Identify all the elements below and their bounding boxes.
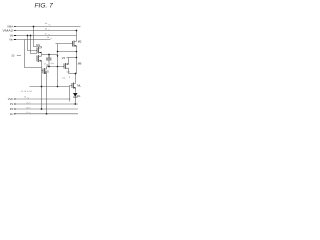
svg-text:1a 1b 1c 1d: 1a 1b 1c 1d: [21, 91, 33, 93]
node dot rail3 a: [27, 35, 29, 37]
transistor M2: [72, 41, 74, 47]
svg-text:M2: M2: [78, 39, 82, 43]
rail start ticks: [14, 27, 16, 114]
svg-text:V6: V6: [62, 56, 66, 60]
wire Vin down-around: [25, 40, 42, 68]
svg-text:4c: 4c: [45, 33, 47, 35]
wire rail AL: [15, 113, 79, 115]
svg-text:ML: ML: [77, 83, 81, 87]
svg-text:4a: 4a: [45, 23, 48, 25]
svg-text:M6: M6: [78, 62, 82, 66]
tick near 10c: [69, 77, 71, 79]
wire gate line to M2: [56, 43, 73, 45]
wire rail Vtch: [15, 98, 71, 100]
arrow M6 drain: [66, 63, 68, 65]
node dot V6 mid rail: [57, 86, 59, 88]
transistor ML: [71, 83, 73, 88]
node dot rail3 b: [30, 35, 32, 37]
arrow V6 down: [57, 55, 59, 57]
svg-text:10b: 10b: [66, 72, 70, 74]
svg-text:P1: P1: [10, 102, 14, 106]
svg-text:M5: M5: [45, 70, 49, 74]
transistor M1: [36, 48, 38, 54]
capacitor 10a: [46, 55, 52, 59]
wire drop from VMA: [34, 27, 42, 47]
node dot P1 diode: [74, 103, 76, 105]
wire link y57: [67, 57, 77, 59]
svg-text:Vd: Vd: [10, 34, 14, 38]
node dot AL: [46, 113, 48, 115]
svg-text:Vin: Vin: [9, 38, 13, 42]
svg-text:VMA: VMA: [7, 25, 13, 29]
wire M6 source to node: [69, 73, 77, 75]
wire rail Vin: [15, 39, 51, 41]
arrow M4 source: [39, 60, 41, 62]
wire rail Vd: [15, 35, 77, 37]
arrow M1 source: [39, 52, 41, 54]
wire diode to P1: [74, 97, 76, 104]
wire V6 vertical: [57, 44, 59, 87]
wire node line to M6 gate: [47, 66, 65, 68]
svg-text:7c: 7c: [26, 112, 28, 114]
node dot cap bottom: [48, 66, 50, 68]
wire rail P2: [15, 108, 79, 110]
wire drop from Vd node 1: [28, 36, 38, 51]
wire node A: [42, 54, 58, 56]
node dot ML drain: [75, 73, 77, 75]
node dot M2 source link: [76, 51, 78, 53]
transistor M4: [36, 56, 38, 62]
svg-text:10a: 10a: [50, 63, 54, 65]
wire drop from Vd node 2: [31, 36, 38, 54]
node dot y57 link: [76, 57, 78, 59]
ref circle node: [47, 65, 48, 66]
node dot cap top: [48, 54, 50, 56]
wire link node to M2 source: [58, 51, 77, 53]
node dot mid rail M4: [41, 86, 43, 88]
node dot V6 link top: [57, 51, 59, 53]
diode DL triangle: [73, 93, 78, 97]
node dot rail1: [33, 26, 35, 28]
svg-text:DL: DL: [77, 94, 81, 98]
arrow M5 source: [44, 72, 46, 74]
node dot P2: [41, 108, 43, 110]
transistor M6: [63, 64, 65, 69]
wire rail VMA: [15, 26, 81, 28]
svg-text:10c: 10c: [62, 78, 65, 80]
transistor M5: [42, 70, 44, 72]
wire ML gate to Vtch: [70, 86, 73, 102]
node dot V6 node line: [57, 66, 59, 68]
leader for block 10: [17, 54, 21, 56]
arrow M2 source: [74, 45, 76, 47]
svg-text:P2: P2: [10, 107, 14, 111]
svg-text:Vtch: Vtch: [8, 97, 14, 101]
svg-text:AL: AL: [10, 112, 14, 116]
svg-text:10: 10: [11, 54, 14, 58]
wire rail P1: [15, 103, 79, 105]
svg-text:4d: 4d: [47, 37, 50, 39]
svg-text:14: 14: [24, 96, 27, 98]
node dot rail2 M2: [76, 30, 78, 32]
arrow ML source: [73, 87, 75, 89]
ref leader curves: [27, 24, 52, 113]
svg-text:M1: M1: [36, 43, 40, 47]
svg-text:VMA2: VMA2: [3, 29, 14, 33]
diode DL cathode bar: [73, 96, 78, 98]
wire rail VMA2: [15, 30, 77, 32]
svg-text:FIG. 7: FIG. 7: [35, 3, 54, 10]
wire mid rail: [30, 86, 70, 88]
wire M4 source to bottom rail P2: [41, 61, 43, 109]
